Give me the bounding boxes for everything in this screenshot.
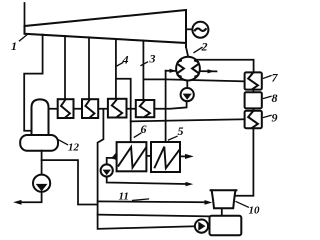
heater A: [58, 99, 74, 118]
arrow into tower: [205, 200, 213, 205]
label 3: [149, 52, 156, 66]
wire 7-8: [252, 90, 254, 93]
pump network: [101, 164, 113, 176]
heater B: [82, 99, 98, 118]
svg-text:2: 2: [201, 40, 208, 54]
wire extraction 2 to heater A: [64, 36, 66, 100]
label 2: [201, 40, 208, 54]
svg-text:7: 7: [272, 71, 279, 85]
arrow cooling out: [208, 69, 215, 73]
wire steam inlet: [24, 3, 26, 26]
svg-text:5: 5: [178, 124, 184, 138]
label 4: [122, 53, 129, 67]
label 7: [272, 71, 279, 85]
svg-text:11: 11: [119, 191, 129, 203]
svg-text:9: 9: [272, 111, 278, 125]
wire 11 line to cooling tower: [98, 200, 206, 203]
svg-text:12: 12: [68, 142, 80, 154]
heater 9: [245, 111, 262, 128]
wire 9 to tower: [235, 128, 254, 196]
label 8: [272, 91, 278, 105]
cooling tower 10: [211, 190, 237, 208]
node turbine exhaust neck: [186, 47, 188, 57]
wire cooling water through condenser: [166, 70, 217, 73]
generator shaft: [186, 28, 192, 30]
pump circulation: [195, 220, 208, 233]
wire extraction 4 to heater C: [115, 39, 117, 100]
heater C: [108, 99, 127, 118]
svg-text:6: 6: [141, 122, 147, 136]
label 10: [249, 205, 261, 217]
wire feed water to boiler: [20, 192, 42, 202]
deaerator tank: [20, 135, 58, 151]
wire drain branch to basin: [98, 215, 210, 217]
wire steam to heater 7: [196, 60, 254, 73]
svg-text:10: 10: [249, 205, 261, 217]
heater 8: [245, 92, 262, 108]
heater D: [136, 100, 155, 117]
condenser 2: [176, 57, 200, 81]
wire extraction 1 to deaerator: [24, 35, 42, 131]
pump feed: [33, 175, 50, 192]
wire 8-9: [252, 108, 254, 110]
wire heater drain to circulation: [98, 109, 195, 229]
label 6: [141, 122, 147, 136]
svg-text:3: 3: [149, 52, 156, 66]
label 5: [178, 124, 184, 138]
label 11: [119, 191, 129, 203]
arrow cooling in: [170, 69, 177, 73]
svg-text:1: 1: [11, 39, 17, 53]
label 12: [68, 142, 80, 154]
wire deaerator overflow branch: [42, 160, 98, 204]
svg-text:8: 8: [272, 91, 278, 105]
wire tank to feed pump: [41, 151, 43, 175]
wire tower to basin: [221, 208, 223, 216]
wire branch from extraction 5 toward heaters 5,7: [143, 79, 244, 81]
wire extraction 3 to heater B: [88, 37, 90, 100]
deaerator column 12: [32, 99, 49, 135]
wire branch from extraction 4 to heater 6: [116, 79, 131, 142]
wire network return: [107, 177, 186, 184]
pump condensate: [181, 88, 194, 101]
wire heater 6 to 5: [146, 155, 151, 157]
wire network pump to heater 6: [107, 154, 116, 164]
wire network supply out: [180, 155, 186, 157]
label 9: [272, 111, 278, 125]
heater 5: [151, 142, 180, 172]
wire steam down to heater 5: [165, 71, 167, 143]
label 1: [11, 39, 17, 53]
wire to heater 9: [131, 119, 245, 121]
generator G1: [192, 22, 208, 38]
heater 7: [245, 72, 262, 89]
heater 6: [117, 142, 147, 171]
turbine T: [25, 10, 187, 47]
svg-text:4: 4: [122, 53, 129, 67]
wire condensate feed line through LP heaters: [47, 101, 187, 109]
wire extraction 5 to heater D: [142, 41, 144, 101]
wire condenser to condensate pump: [186, 81, 188, 89]
basin: [210, 216, 242, 236]
